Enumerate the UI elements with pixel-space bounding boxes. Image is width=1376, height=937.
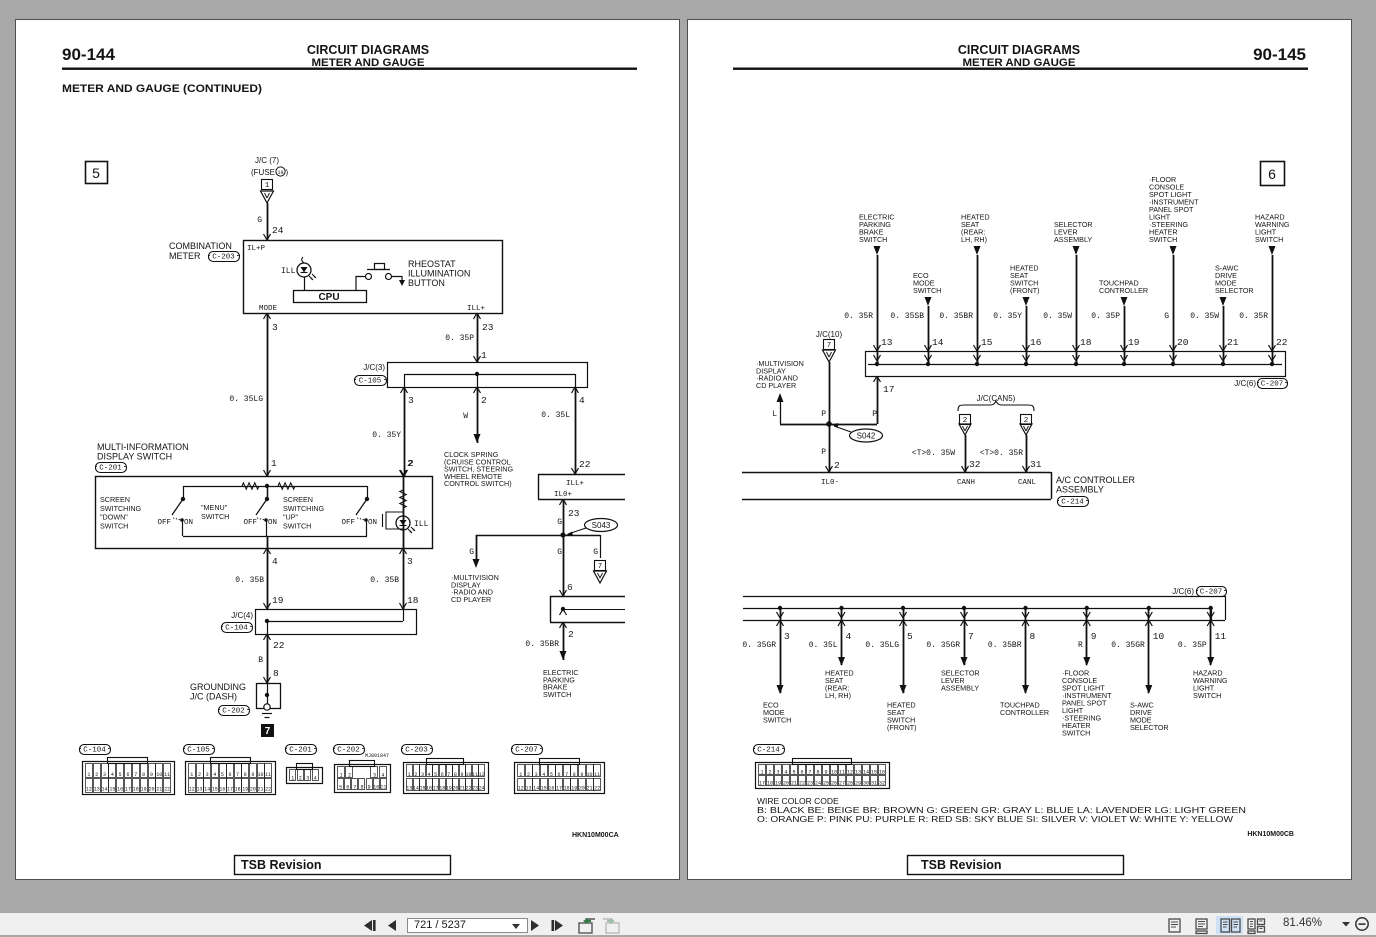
svg-text:MJ801847: MJ801847	[365, 753, 389, 759]
svg-text:9: 9	[460, 772, 463, 778]
svg-text:9: 9	[150, 772, 153, 778]
svg-text:G: G	[257, 216, 262, 225]
svg-text:10: 10	[1153, 631, 1165, 642]
svg-text:21: 21	[587, 786, 593, 792]
svg-text:0. 35BR: 0. 35BR	[939, 312, 973, 321]
svg-text:90-144: 90-144	[62, 45, 115, 64]
svg-text:J/C (DASH): J/C (DASH)	[190, 692, 237, 702]
svg-text:3: 3	[306, 776, 309, 782]
svg-text:4: 4	[579, 395, 585, 406]
svg-text:<T>0. 35W: <T>0. 35W	[912, 449, 955, 458]
svg-text:16: 16	[426, 786, 432, 792]
svg-text:ILL: ILL	[414, 520, 429, 529]
svg-text:19: 19	[446, 786, 452, 792]
svg-text:J/C(6): J/C(6)	[1172, 587, 1194, 596]
svg-text:0. 35B: 0. 35B	[370, 576, 399, 585]
svg-text:2: 2	[527, 772, 530, 778]
svg-text:2: 2	[834, 460, 840, 471]
svg-text:5: 5	[119, 772, 122, 778]
svg-text:12: 12	[518, 786, 524, 792]
svg-text:23: 23	[807, 781, 813, 787]
svg-text:15: 15	[541, 786, 547, 792]
svg-text:24: 24	[272, 225, 284, 236]
svg-text:0. 35P: 0. 35P	[445, 334, 474, 343]
svg-text:8: 8	[142, 772, 145, 778]
svg-text:22: 22	[273, 640, 285, 651]
svg-text:C-207: C-207	[515, 747, 538, 755]
svg-text:1: 1	[408, 772, 411, 778]
svg-text:26: 26	[831, 781, 837, 787]
svg-text:4: 4	[846, 631, 852, 642]
svg-text:4: 4	[784, 770, 787, 776]
svg-text:0. 35BR: 0. 35BR	[988, 641, 1022, 650]
svg-text:4: 4	[111, 772, 114, 778]
svg-text:C-202: C-202	[337, 747, 360, 755]
svg-text:CD PLAYER: CD PLAYER	[451, 595, 491, 604]
svg-text:25: 25	[823, 781, 829, 787]
svg-text:19: 19	[141, 787, 147, 793]
svg-text:5: 5	[434, 772, 437, 778]
svg-text:20: 20	[1177, 337, 1189, 348]
svg-text:19: 19	[775, 781, 781, 787]
svg-text:SWITCH: SWITCH	[100, 521, 128, 530]
svg-text:HKN10M00CB: HKN10M00CB	[1247, 831, 1294, 838]
svg-text:2: 2	[198, 772, 201, 778]
svg-text:14: 14	[863, 770, 869, 776]
svg-text:31: 31	[871, 781, 877, 787]
svg-text:CPU: CPU	[318, 292, 339, 303]
svg-text:22: 22	[164, 787, 170, 793]
svg-text:0. 35P: 0. 35P	[1178, 641, 1207, 650]
svg-text:3: 3	[272, 322, 278, 333]
svg-text:METER AND GAUGE: METER AND GAUGE	[312, 57, 425, 69]
svg-text:11: 11	[839, 770, 845, 776]
svg-text:22: 22	[265, 787, 271, 793]
svg-text:18: 18	[564, 786, 570, 792]
svg-text:J/C(3): J/C(3)	[363, 363, 385, 372]
svg-text:0. 35B: 0. 35B	[235, 576, 264, 585]
svg-text:0. 35L: 0. 35L	[809, 641, 838, 650]
svg-text:8: 8	[573, 772, 576, 778]
svg-text:1: 1	[340, 773, 343, 779]
svg-text:MODE: MODE	[259, 305, 278, 313]
svg-text:ILL+: ILL+	[467, 305, 486, 313]
svg-text:18: 18	[235, 787, 241, 793]
svg-text:29: 29	[855, 781, 861, 787]
svg-text:14: 14	[533, 786, 539, 792]
svg-text:21: 21	[156, 787, 162, 793]
svg-text:J/C(6): J/C(6)	[1234, 379, 1256, 388]
svg-text:S043: S043	[592, 521, 611, 530]
svg-text:11: 11	[1215, 631, 1227, 642]
svg-text:11: 11	[594, 772, 600, 778]
svg-text:22: 22	[1276, 337, 1288, 348]
svg-text:9: 9	[580, 772, 583, 778]
svg-text:22: 22	[799, 781, 805, 787]
svg-text:0. 35Y: 0. 35Y	[372, 431, 401, 440]
svg-text:J/C (7): J/C (7)	[255, 156, 279, 165]
svg-text:6: 6	[800, 770, 803, 776]
svg-text:(FRONT): (FRONT)	[1010, 286, 1040, 295]
svg-text:24: 24	[815, 781, 821, 787]
svg-text:CANH: CANH	[957, 479, 975, 487]
svg-text:R: R	[1078, 641, 1083, 650]
svg-text:23: 23	[482, 322, 494, 333]
svg-text:ON: ON	[368, 519, 377, 527]
svg-text:C-207: C-207	[1200, 589, 1223, 597]
svg-text:METER AND GAUGE (CONTINUED): METER AND GAUGE (CONTINUED)	[62, 83, 262, 95]
svg-text:16: 16	[1030, 337, 1042, 348]
svg-text:5: 5	[550, 772, 553, 778]
svg-text:CONTROLLER: CONTROLLER	[1099, 286, 1148, 295]
svg-text:C-104: C-104	[83, 747, 106, 755]
svg-text:SELECTOR: SELECTOR	[1215, 286, 1254, 295]
svg-text:1: 1	[87, 772, 90, 778]
svg-text:2: 2	[768, 770, 771, 776]
svg-text:0. 35LG: 0. 35LG	[865, 641, 899, 650]
svg-text:IL0+: IL0+	[554, 491, 573, 499]
svg-text:SWITCHING: SWITCHING	[100, 504, 142, 513]
svg-text:22: 22	[594, 786, 600, 792]
svg-text:9: 9	[1091, 631, 1097, 642]
svg-text:TSB Revision: TSB Revision	[241, 858, 322, 872]
svg-text:<T>0. 35R: <T>0. 35R	[980, 449, 1023, 458]
svg-text:4: 4	[428, 772, 431, 778]
svg-text:"UP": "UP"	[283, 513, 299, 522]
svg-text:7: 7	[565, 772, 568, 778]
svg-text:13: 13	[881, 337, 893, 348]
svg-text:C-202: C-202	[222, 708, 245, 716]
svg-text:0. 35GR: 0. 35GR	[1111, 641, 1145, 650]
svg-text:SWITCH: SWITCH	[1062, 729, 1090, 738]
svg-text:21: 21	[791, 781, 797, 787]
svg-text:C-104: C-104	[225, 625, 248, 633]
svg-text:C-214: C-214	[1061, 499, 1084, 507]
svg-text:6: 6	[126, 772, 129, 778]
svg-text:2: 2	[414, 772, 417, 778]
svg-text:2: 2	[407, 458, 413, 469]
svg-text:22: 22	[579, 459, 591, 470]
svg-text:2: 2	[95, 772, 98, 778]
svg-text:7: 7	[353, 785, 356, 791]
svg-text:3: 3	[408, 395, 414, 406]
svg-text:16: 16	[219, 787, 225, 793]
svg-text:8: 8	[244, 772, 247, 778]
svg-text:1: 1	[190, 772, 193, 778]
svg-text:24: 24	[479, 786, 485, 792]
svg-text:15: 15	[109, 787, 115, 793]
svg-text:5: 5	[221, 772, 224, 778]
svg-text:17: 17	[883, 384, 894, 395]
svg-text:21: 21	[459, 786, 465, 792]
svg-text:C-207: C-207	[1261, 381, 1284, 389]
svg-text:LH, RH): LH, RH)	[825, 691, 851, 700]
svg-text:IL+P: IL+P	[247, 245, 266, 253]
svg-text:8: 8	[816, 770, 819, 776]
svg-text:CONTROLLER: CONTROLLER	[1000, 708, 1049, 717]
svg-text:C-105: C-105	[359, 378, 382, 386]
svg-text:ILL: ILL	[281, 267, 296, 276]
svg-text:SWITCH: SWITCH	[201, 512, 229, 521]
svg-text:18: 18	[767, 781, 773, 787]
svg-text:4: 4	[314, 776, 317, 782]
svg-text:10: 10	[373, 785, 379, 791]
svg-text:11: 11	[380, 785, 386, 791]
svg-text:32: 32	[969, 459, 981, 470]
svg-text:6: 6	[557, 772, 560, 778]
svg-text:14: 14	[932, 337, 944, 348]
svg-text:(FRONT): (FRONT)	[887, 723, 917, 732]
svg-text:3: 3	[421, 772, 424, 778]
svg-text:3: 3	[373, 773, 376, 779]
svg-text:J/C(4): J/C(4)	[231, 611, 253, 620]
svg-text:0. 35Y: 0. 35Y	[993, 312, 1022, 321]
svg-text:0. 35GR: 0. 35GR	[742, 641, 776, 650]
svg-text:14: 14	[413, 786, 419, 792]
svg-text:11: 11	[164, 772, 170, 778]
svg-text:30: 30	[863, 781, 869, 787]
svg-text:90-145: 90-145	[1253, 45, 1306, 64]
svg-text:2: 2	[299, 776, 302, 782]
svg-text:CIRCUIT DIAGRAMS: CIRCUIT DIAGRAMS	[307, 43, 429, 57]
svg-text:SWITCHING: SWITCHING	[283, 504, 325, 513]
svg-text:12: 12	[189, 787, 195, 793]
svg-text:SWITCH: SWITCH	[1255, 235, 1283, 244]
svg-text:CIRCUIT DIAGRAMS: CIRCUIT DIAGRAMS	[958, 43, 1080, 57]
svg-text:14: 14	[204, 787, 210, 793]
svg-text:9: 9	[368, 785, 371, 791]
svg-text:3: 3	[103, 772, 106, 778]
svg-text:CONTROL SWITCH): CONTROL SWITCH)	[444, 479, 512, 488]
svg-text:21: 21	[1227, 337, 1239, 348]
svg-text:5: 5	[92, 165, 100, 181]
svg-text:A/C CONTROLLER: A/C CONTROLLER	[1056, 475, 1136, 485]
svg-text:"MENU": "MENU"	[201, 503, 228, 512]
svg-text:22: 22	[466, 786, 472, 792]
svg-text:P: P	[872, 410, 877, 419]
svg-text:LH, RH): LH, RH)	[961, 235, 987, 244]
svg-text:C-201: C-201	[99, 465, 122, 473]
svg-text:0. 35P: 0. 35P	[1091, 312, 1120, 321]
svg-text:19: 19	[272, 595, 284, 606]
svg-text:10: 10	[466, 772, 472, 778]
svg-text:27: 27	[839, 781, 845, 787]
svg-text:18: 18	[1080, 337, 1092, 348]
svg-text:6: 6	[1268, 166, 1276, 182]
svg-text:7: 7	[598, 563, 603, 571]
svg-text:11: 11	[265, 772, 271, 778]
svg-text:4: 4	[272, 556, 278, 567]
svg-text:G: G	[557, 518, 562, 527]
svg-text:ASSEMBLY: ASSEMBLY	[1056, 485, 1104, 495]
svg-text:0. 35L: 0. 35L	[541, 411, 570, 420]
svg-text:TSB Revision: TSB Revision	[921, 858, 1002, 872]
svg-text:7: 7	[236, 772, 239, 778]
svg-text:S042: S042	[857, 432, 876, 441]
svg-text:8: 8	[273, 668, 279, 679]
svg-text:7: 7	[968, 631, 974, 642]
svg-text:CD PLAYER: CD PLAYER	[756, 381, 796, 390]
svg-text:12: 12	[847, 770, 853, 776]
svg-text:METER: METER	[169, 251, 201, 261]
svg-text:DISPLAY SWITCH: DISPLAY SWITCH	[97, 452, 172, 462]
svg-text:SWITCH: SWITCH	[543, 690, 571, 699]
svg-text:20: 20	[783, 781, 789, 787]
svg-text:O: ORANGE P: PINK PU: PURP: O: ORANGE P: PINK PU: PURPLE R: RED SB: …	[757, 814, 1233, 824]
svg-text:6: 6	[346, 785, 349, 791]
svg-text:ASSEMBLY: ASSEMBLY	[1054, 235, 1092, 244]
svg-text:1: 1	[291, 776, 294, 782]
svg-text:6: 6	[228, 772, 231, 778]
svg-text:20: 20	[452, 786, 458, 792]
svg-text:10: 10	[587, 772, 593, 778]
svg-text:C-203: C-203	[212, 254, 235, 262]
svg-text:17: 17	[227, 787, 233, 793]
svg-text:31: 31	[1030, 459, 1042, 470]
svg-text:18: 18	[439, 786, 445, 792]
svg-text:SWITCH: SWITCH	[763, 716, 791, 725]
svg-text:ILL+: ILL+	[566, 480, 585, 488]
svg-text:20: 20	[148, 787, 154, 793]
svg-text:ON: ON	[268, 519, 277, 527]
svg-text:G: G	[469, 548, 474, 557]
svg-text:C-203: C-203	[405, 747, 428, 755]
svg-text:18: 18	[407, 595, 419, 606]
svg-text:8: 8	[454, 772, 457, 778]
svg-text:OFF: OFF	[341, 519, 355, 527]
svg-text:15: 15	[419, 786, 425, 792]
svg-text:MULTI-INFORMATION: MULTI-INFORMATION	[97, 442, 189, 452]
svg-text:C-214: C-214	[757, 747, 780, 755]
svg-text:1: 1	[481, 350, 487, 361]
svg-text:19: 19	[571, 786, 577, 792]
svg-text:7: 7	[265, 726, 271, 737]
svg-text:15: 15	[212, 787, 218, 793]
svg-text:RHEOSTAT: RHEOSTAT	[408, 259, 456, 269]
svg-text:COMBINATION: COMBINATION	[169, 241, 232, 251]
svg-text:23: 23	[568, 508, 580, 519]
svg-text:G: G	[593, 548, 598, 557]
svg-text:13: 13	[406, 786, 412, 792]
svg-text:P: P	[821, 448, 826, 457]
svg-text:0. 35W: 0. 35W	[1190, 312, 1219, 321]
svg-text:4: 4	[381, 773, 384, 779]
svg-text:SELECTOR: SELECTOR	[1130, 723, 1169, 732]
svg-text:3: 3	[776, 770, 779, 776]
svg-text:28: 28	[847, 781, 853, 787]
svg-text:14: 14	[102, 787, 108, 793]
svg-text:0. 35R: 0. 35R	[844, 312, 873, 321]
svg-text:0. 35SB: 0. 35SB	[890, 312, 924, 321]
svg-text:7: 7	[827, 342, 832, 350]
svg-text:5: 5	[339, 785, 342, 791]
svg-text:2: 2	[481, 395, 487, 406]
svg-text:11: 11	[472, 772, 478, 778]
svg-text:17: 17	[433, 786, 439, 792]
svg-text:SCREEN: SCREEN	[283, 495, 313, 504]
svg-text:3: 3	[407, 556, 413, 567]
svg-text:0. 35W: 0. 35W	[1043, 312, 1072, 321]
svg-text:SCREEN: SCREEN	[100, 495, 130, 504]
svg-text:13: 13	[525, 786, 531, 792]
svg-text:HKN10M00CA: HKN10M00CA	[572, 832, 619, 839]
svg-text:3: 3	[535, 772, 538, 778]
svg-text:P: P	[821, 410, 826, 419]
svg-text:10: 10	[258, 772, 264, 778]
svg-text:C-105: C-105	[187, 747, 210, 755]
svg-text:9: 9	[251, 772, 254, 778]
svg-text:ILLUMINATION: ILLUMINATION	[408, 269, 470, 279]
svg-text:15: 15	[871, 770, 877, 776]
svg-text:G: G	[1164, 312, 1169, 321]
svg-text:(FUSE: (FUSE	[251, 168, 275, 177]
svg-text:12: 12	[86, 787, 92, 793]
svg-text:15: 15	[981, 337, 993, 348]
svg-text:8: 8	[360, 785, 363, 791]
svg-text:20: 20	[250, 787, 256, 793]
svg-text:B: B	[258, 656, 263, 665]
svg-text:ASSEMBLY: ASSEMBLY	[941, 684, 979, 693]
svg-text:6: 6	[567, 582, 573, 593]
svg-text:SWITCH: SWITCH	[913, 286, 941, 295]
svg-text:13: 13	[855, 770, 861, 776]
svg-text:OFF: OFF	[157, 519, 171, 527]
svg-text:13: 13	[94, 787, 100, 793]
svg-text:8: 8	[1030, 631, 1036, 642]
svg-text:7: 7	[447, 772, 450, 778]
svg-text:J/C(10): J/C(10)	[816, 330, 843, 339]
svg-text:1: 1	[271, 458, 277, 469]
svg-text:4: 4	[213, 772, 216, 778]
svg-text:17: 17	[125, 787, 131, 793]
svg-text:G: G	[557, 548, 562, 557]
svg-text:13: 13	[196, 787, 202, 793]
svg-text:6: 6	[441, 772, 444, 778]
svg-text:19: 19	[1128, 337, 1140, 348]
svg-text:3: 3	[784, 631, 790, 642]
svg-text:SWITCH: SWITCH	[283, 521, 311, 530]
svg-text:SWITCH: SWITCH	[1149, 235, 1177, 244]
svg-text:0. 35GR: 0. 35GR	[926, 641, 960, 650]
svg-text:ON: ON	[184, 519, 193, 527]
svg-text:21: 21	[258, 787, 264, 793]
svg-text:BUTTON: BUTTON	[408, 278, 445, 288]
svg-text:0. 35LG: 0. 35LG	[229, 395, 263, 404]
svg-text:0. 35R: 0. 35R	[1239, 312, 1268, 321]
svg-text:12: 12	[479, 772, 485, 778]
svg-text:10: 10	[831, 770, 837, 776]
svg-text:19: 19	[242, 787, 248, 793]
svg-text:): )	[286, 168, 289, 177]
svg-text:"DOWN": "DOWN"	[100, 513, 128, 522]
svg-text:OFF: OFF	[243, 519, 257, 527]
svg-text:10: 10	[156, 772, 162, 778]
svg-text:18: 18	[133, 787, 139, 793]
svg-text:7: 7	[808, 770, 811, 776]
svg-text:SWITCH: SWITCH	[1193, 691, 1221, 700]
svg-text:3: 3	[206, 772, 209, 778]
svg-text:16: 16	[879, 770, 885, 776]
svg-text:0. 35BR: 0. 35BR	[525, 640, 559, 649]
svg-text:16: 16	[548, 786, 554, 792]
svg-text:L: L	[772, 410, 777, 419]
svg-text:17: 17	[556, 786, 562, 792]
svg-text:METER AND GAUGE: METER AND GAUGE	[963, 57, 1076, 69]
svg-text:5: 5	[907, 631, 913, 642]
svg-text:23: 23	[472, 786, 478, 792]
svg-text:CANL: CANL	[1018, 479, 1037, 487]
svg-text:4: 4	[542, 772, 545, 778]
